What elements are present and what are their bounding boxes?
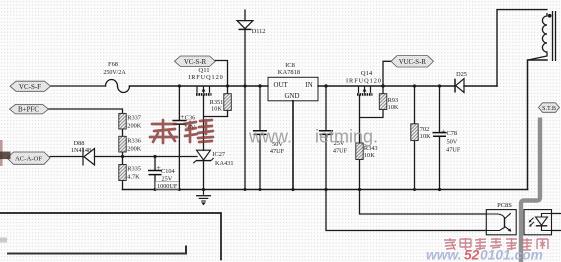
- svg-text:VUC-S-R: VUC-S-R: [399, 59, 427, 66]
- wire bus up right side to transformer: [528, 60, 548, 190]
- watermark red xinming characters (stroke shapes): [150, 120, 213, 143]
- IC8 KA7818 regulator box: [268, 77, 318, 101]
- svg-text:10K: 10K: [364, 152, 375, 159]
- svg-text:PC8S: PC8S: [497, 202, 512, 209]
- node label AC-A-OF: [7, 152, 50, 164]
- wire R702: [414, 86, 416, 190]
- wire resistor chain x=122.5: [122, 129, 124, 190]
- diode D88: [83, 148, 95, 166]
- svg-text:Q11: Q11: [198, 67, 209, 74]
- svg-text:+: +: [441, 126, 445, 135]
- wire C78: [439, 86, 441, 190]
- svg-text:10K: 10K: [388, 104, 399, 111]
- transformer polarity dot: [548, 14, 552, 18]
- wire rail fuse to IC8: [130, 85, 269, 87]
- optocoupler PC8S left box (phototransistor): [486, 210, 516, 235]
- transistor Q11 MOSFET symbol: [196, 86, 212, 94]
- wire D112 vertical: [244, 10, 246, 190]
- svg-text:200K: 200K: [127, 123, 141, 130]
- watermark bottom red chinese line (stroke shapes): [444, 238, 548, 250]
- wire bottom-left line B: [8, 247, 186, 254]
- svg-text:www.: www.: [248, 127, 292, 147]
- resistor R702: [411, 124, 418, 141]
- wire capacitor x=326 and lead to optocoupler: [326, 86, 486, 231]
- optocoupler PC8S right box (LED): [524, 210, 552, 235]
- wire R343 to bus and lead to optocoupler: [360, 160, 487, 215]
- svg-text:F68: F68: [108, 61, 118, 68]
- node label VC-S-R: [175, 56, 216, 67]
- svg-text:KA7818: KA7818: [278, 69, 300, 76]
- svg-text:D25: D25: [456, 71, 467, 78]
- transformer winding with core: [528, 11, 556, 61]
- svg-text:C78: C78: [447, 130, 458, 137]
- left edge scan marks: [0, 140, 3, 166]
- capacitor C36 plates: [172, 121, 186, 125]
- svg-text:www.: www.: [426, 248, 462, 262]
- svg-text:R335: R335: [127, 166, 141, 173]
- resistor R343: [356, 143, 363, 160]
- svg-text:D88: D88: [74, 140, 85, 147]
- svg-text:GND: GND: [285, 93, 300, 100]
- wire highlighted gray STB line: [521, 118, 540, 262]
- capacitor 50V/47UF plates x=260: [253, 131, 267, 135]
- capacitor 25V/47UF plates x=326: [319, 131, 333, 135]
- ground bus: [123, 189, 528, 191]
- svg-text:S.T.B: S.T.B: [542, 105, 556, 112]
- node label STB: [539, 103, 560, 113]
- resistor R335: [119, 165, 126, 181]
- svg-text:47UF: 47UF: [446, 147, 461, 154]
- svg-text:C36: C36: [185, 115, 196, 122]
- wire main rail VC-S-F: [51, 85, 106, 87]
- resistor R351: [224, 94, 232, 111]
- wire capacitor x=260: [259, 86, 261, 190]
- wire Q14 gate node: [360, 95, 384, 143]
- svg-text:IC27: IC27: [212, 151, 225, 158]
- resistor R336: [119, 136, 126, 152]
- svg-text:+: +: [180, 112, 184, 121]
- svg-text:R336: R336: [127, 137, 141, 144]
- svg-text:IC8: IC8: [285, 62, 295, 69]
- wire riser to transformer top: [497, 10, 547, 86]
- watermark gray www.ietming: [248, 127, 378, 147]
- diode D25: [455, 79, 464, 93]
- svg-text:ietming.: ietming.: [315, 127, 378, 147]
- svg-text:250V/2A: 250V/2A: [103, 70, 126, 76]
- svg-text:OUT: OUT: [274, 82, 289, 89]
- resistor R337: [119, 113, 126, 129]
- wire IC8 GND pin: [292, 101, 294, 190]
- svg-text:D112: D112: [252, 28, 266, 35]
- node label B+PFC: [10, 104, 49, 114]
- wire C36: [178, 86, 180, 190]
- shunt regulator IC27 KA431: [193, 150, 213, 163]
- ground symbol: [196, 190, 211, 206]
- svg-text:Q14: Q14: [361, 70, 373, 77]
- capacitor C78 plates: [433, 133, 447, 137]
- svg-text:10K: 10K: [211, 106, 222, 113]
- svg-text:702: 702: [420, 126, 429, 133]
- svg-text:52: 52: [464, 248, 480, 262]
- svg-text:IN: IN: [306, 82, 313, 89]
- wire KA431 anode to bus: [203, 161, 205, 190]
- svg-text:AC-A-OF: AC-A-OF: [15, 156, 42, 163]
- wire rail IC8 to D25: [318, 85, 455, 87]
- wire D25 to riser: [464, 85, 497, 87]
- svg-text:R93: R93: [388, 97, 399, 104]
- wire B+PFC rail: [49, 109, 123, 113]
- fuse F68: [106, 80, 130, 93]
- diode D112: [237, 21, 253, 30]
- capacitor C104 plates: [148, 171, 162, 175]
- svg-text:IRFUQ120: IRFUQ120: [346, 77, 381, 84]
- svg-text:KA431: KA431: [215, 160, 234, 167]
- transistor Q14 MOSFET symbol: [357, 86, 373, 94]
- svg-text:47UF: 47UF: [270, 148, 285, 155]
- svg-text:0101.com: 0101.com: [480, 248, 543, 262]
- svg-text:IRFUQ120: IRFUQ120: [188, 74, 223, 81]
- svg-text:10K: 10K: [420, 133, 431, 140]
- wire VUC-S-R drop to rail and R93: [383, 61, 391, 93]
- wire VC-S-R to R351: [215, 61, 227, 117]
- svg-text:R337: R337: [127, 115, 141, 122]
- wire C104: [154, 157, 156, 190]
- svg-text:VC-S-F: VC-S-F: [19, 83, 41, 91]
- node label VC-S-F: [10, 81, 51, 91]
- svg-text:200K: 200K: [127, 145, 141, 152]
- node label VUC-S-R: [391, 56, 434, 67]
- wire AC-A-OF rail: [50, 156, 197, 158]
- svg-text:1000UF: 1000UF: [157, 183, 178, 190]
- svg-text:47UF: 47UF: [333, 147, 348, 154]
- svg-text:C104: C104: [161, 168, 175, 175]
- wire bottom-left long line A: [0, 213, 221, 260]
- watermark www.520101.com: [426, 248, 543, 262]
- svg-text:4.7K: 4.7K: [127, 174, 140, 181]
- svg-text:1N4148: 1N4148: [71, 147, 91, 154]
- svg-text:50V: 50V: [447, 139, 458, 146]
- svg-text:VC-S-R: VC-S-R: [184, 59, 207, 66]
- wire Q11 gate node: [204, 95, 228, 150]
- wire optocoupler right leads: [552, 214, 561, 231]
- junction dots: [121, 84, 441, 191]
- resistor R93: [379, 94, 387, 110]
- svg-text:B+PFC: B+PFC: [18, 106, 39, 114]
